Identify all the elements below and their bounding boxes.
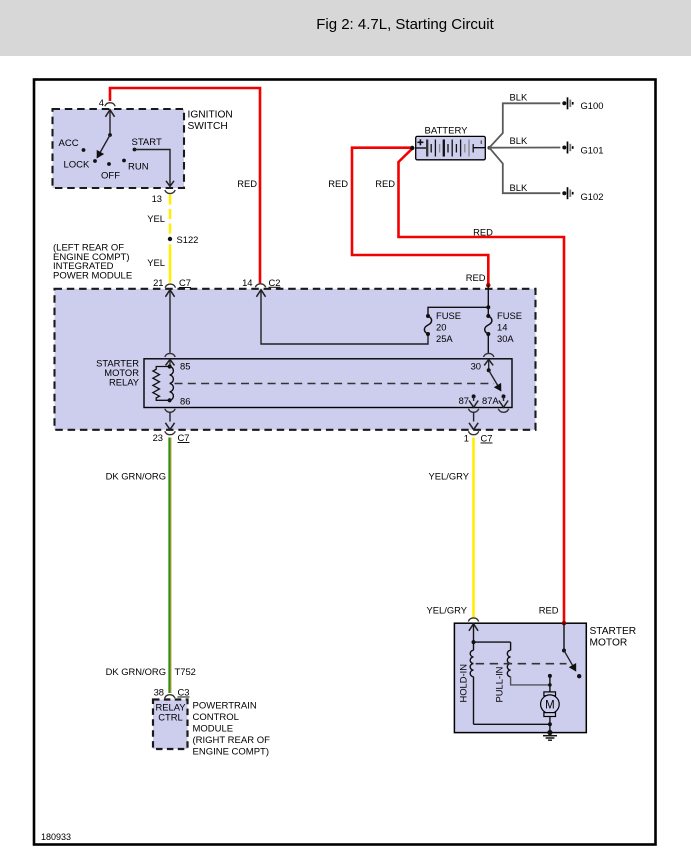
svg-text:RED: RED xyxy=(466,272,486,283)
relay coil winding xyxy=(170,367,174,401)
battery plus xyxy=(417,141,423,143)
wire 87 to pin 1 xyxy=(473,412,475,422)
starter switch line xyxy=(563,623,565,650)
switch pivot node xyxy=(108,133,112,137)
svg-text:RED: RED xyxy=(328,178,348,189)
svg-text:38: 38 xyxy=(154,687,164,698)
wire to fuse 20 top xyxy=(428,307,488,316)
splice S122 xyxy=(168,237,172,241)
svg-text:G100: G100 xyxy=(581,100,604,111)
wire RED ignition pin4 to C2 xyxy=(110,88,260,283)
ground symbol starter xyxy=(543,736,557,741)
svg-text:RED: RED xyxy=(539,605,559,616)
frame border xyxy=(34,80,656,845)
motor brush bottom xyxy=(544,713,556,717)
arc below relay at 87A xyxy=(498,409,508,413)
battery box xyxy=(416,136,486,159)
wire YEL dashed segment xyxy=(169,195,172,238)
connector 23 C7 xyxy=(165,431,175,435)
contact dot RUN xyxy=(122,159,126,163)
svg-text:M: M xyxy=(545,700,555,712)
svg-text:DK GRN/ORG: DK GRN/ORG xyxy=(106,471,166,482)
svg-text:YEL/GRY: YEL/GRY xyxy=(429,471,470,482)
svg-text:C7: C7 xyxy=(178,432,190,443)
battery cells xyxy=(427,140,473,157)
starter entry connector arc xyxy=(468,618,478,622)
svg-text:BLK: BLK xyxy=(510,135,528,146)
svg-text:25A: 25A xyxy=(436,333,453,344)
svg-text:C7: C7 xyxy=(179,277,191,288)
wire YEL solid segment xyxy=(169,245,172,283)
svg-text:STARTER: STARTER xyxy=(590,626,637,637)
svg-text:23: 23 xyxy=(153,432,163,443)
wire fuse 14 to relay 30 xyxy=(487,334,489,354)
PCM relay ctrl box xyxy=(153,700,188,750)
wire RED battery to starter motor xyxy=(399,148,565,622)
svg-text:PULL-IN: PULL-IN xyxy=(494,667,505,703)
pin 4 connector arc xyxy=(105,103,115,107)
wire START to pin 13 xyxy=(135,150,171,187)
starter motor relay box xyxy=(144,359,512,408)
svg-text:MOTOR: MOTOR xyxy=(590,638,628,649)
starter entry arrow xyxy=(469,624,478,631)
svg-text:HOLD-IN: HOLD-IN xyxy=(458,664,469,703)
wire RED battery to IPM fuse feed xyxy=(352,148,488,286)
svg-text:(RIGHT REAR OF: (RIGHT REAR OF xyxy=(193,735,271,746)
svg-text:BLK: BLK xyxy=(510,91,528,102)
relay pin 87 exit arrow xyxy=(473,396,475,401)
svg-text:T752: T752 xyxy=(175,666,196,677)
svg-text:CTRL: CTRL xyxy=(158,712,182,723)
svg-text:Fig 2: 4.7L, Starting Circuit: Fig 2: 4.7L, Starting Circuit xyxy=(316,16,494,33)
svg-text:21: 21 xyxy=(153,277,163,288)
svg-text:13: 13 xyxy=(152,193,162,204)
svg-text:20: 20 xyxy=(436,322,446,333)
IPM box xyxy=(55,289,536,430)
battery terminal lines xyxy=(416,147,427,149)
svg-text:DK GRN/ORG: DK GRN/ORG xyxy=(106,666,166,677)
fuse 14 xyxy=(486,314,490,318)
ground G101 xyxy=(562,142,603,156)
wire to pull-in xyxy=(474,641,511,643)
motor brush top xyxy=(544,692,556,696)
svg-text:YEL: YEL xyxy=(147,257,165,268)
starter switch lever xyxy=(564,651,576,671)
svg-text:FUSE: FUSE xyxy=(497,310,522,321)
pin 13 connector arc xyxy=(165,190,175,194)
svg-text:85: 85 xyxy=(180,361,190,372)
starter mechanical link dashed xyxy=(476,663,567,665)
svg-text:14: 14 xyxy=(242,277,252,288)
svg-text:4: 4 xyxy=(99,97,104,108)
pin 21 entry arrow + wire to relay xyxy=(165,290,174,297)
relay pin 87A exit arrow xyxy=(503,396,505,401)
starter motor box xyxy=(454,623,586,732)
junction node fuse feed xyxy=(486,305,490,309)
svg-text:87A: 87A xyxy=(482,395,499,406)
junction node coils xyxy=(472,640,476,644)
fuse 20 xyxy=(426,314,430,318)
svg-text:14: 14 xyxy=(497,322,507,333)
svg-text:RED: RED xyxy=(473,227,493,238)
svg-text:87: 87 xyxy=(459,395,469,406)
svg-text:C2: C2 xyxy=(269,277,281,288)
relay coil entry arrow xyxy=(166,359,175,365)
motor circle xyxy=(541,695,560,714)
ground G100 xyxy=(562,97,603,111)
svg-text:SWITCH: SWITCH xyxy=(188,121,228,132)
svg-text:BLK: BLK xyxy=(510,182,528,193)
relay switch lever xyxy=(489,370,501,390)
wire entry to junction xyxy=(473,624,475,642)
starter switch red feed node xyxy=(562,621,566,625)
red feed junction dot xyxy=(486,283,490,287)
svg-text:86: 86 xyxy=(180,396,190,407)
relay mechanical link dashed xyxy=(175,383,495,385)
svg-text:RED: RED xyxy=(237,178,257,189)
svg-text:S122: S122 xyxy=(177,234,199,245)
relay 30 entry arrow xyxy=(484,359,493,365)
arc below relay at 87 xyxy=(468,409,478,413)
svg-text:G101: G101 xyxy=(581,145,604,156)
svg-text:RUN: RUN xyxy=(128,162,149,173)
svg-text:OFF: OFF xyxy=(101,171,120,182)
wire motor to ground xyxy=(549,717,551,735)
relay pin 86 xyxy=(168,398,172,402)
battery negative terminal node xyxy=(487,146,491,150)
svg-text:RELAY: RELAY xyxy=(109,377,140,388)
svg-text:MODULE: MODULE xyxy=(193,724,234,735)
relay coil connector arc xyxy=(165,353,175,357)
svg-text:ENGINE COMPT): ENGINE COMPT) xyxy=(193,747,270,758)
wire DK GRN/ORG xyxy=(168,438,170,694)
svg-text:C7: C7 xyxy=(481,433,493,444)
ignition switch box xyxy=(53,109,185,188)
battery minus xyxy=(480,140,482,144)
svg-text:IGNITION: IGNITION xyxy=(188,110,233,121)
svg-text:CONTROL: CONTROL xyxy=(193,712,239,723)
svg-text:FUSE: FUSE xyxy=(436,310,461,321)
wire BLK to G100 xyxy=(489,103,560,147)
wire YEL/GRY xyxy=(472,438,475,619)
relay pin 85 xyxy=(168,364,172,368)
contact dot START xyxy=(133,148,137,152)
svg-text:30: 30 xyxy=(471,361,481,372)
switch common line xyxy=(109,110,111,135)
svg-text:1: 1 xyxy=(464,433,469,444)
svg-text:YEL/GRY: YEL/GRY xyxy=(427,605,468,616)
arc below relay at 86 xyxy=(165,409,175,413)
switch lever to LOCK xyxy=(97,135,110,158)
svg-text:LOCK: LOCK xyxy=(64,160,91,171)
pin 4 arrow xyxy=(105,110,114,117)
wire BLK to G101 xyxy=(489,147,560,149)
svg-text:START: START xyxy=(132,137,162,148)
battery positive terminal node xyxy=(410,146,414,150)
svg-text:POWER MODULE: POWER MODULE xyxy=(53,270,132,281)
contact dot ACC xyxy=(82,148,86,152)
hold-in coil xyxy=(473,642,475,650)
relay 30 connector arc xyxy=(484,353,494,357)
connector 1 C7 xyxy=(468,431,478,435)
pull-in coil xyxy=(510,642,512,650)
wire BLK to G102 xyxy=(489,148,560,194)
relay coil resistor branch xyxy=(153,367,170,401)
svg-text:C3: C3 xyxy=(178,687,190,698)
svg-text:YEL: YEL xyxy=(147,213,165,224)
svg-text:BATTERY: BATTERY xyxy=(425,126,469,137)
starter switch contact xyxy=(548,674,552,678)
svg-text:ACC: ACC xyxy=(59,138,79,149)
pin 14 entry arrow + wire to fuse 20 xyxy=(256,290,265,297)
title bar xyxy=(0,0,691,56)
contact dot OFF xyxy=(107,162,111,166)
wire red feed inside IPM xyxy=(487,285,489,316)
svg-text:RED: RED xyxy=(375,178,395,189)
svg-text:G102: G102 xyxy=(581,191,604,202)
svg-text:180933: 180933 xyxy=(41,832,71,842)
ground G102 xyxy=(562,187,603,202)
relay pin 87 xyxy=(472,394,476,398)
svg-text:30A: 30A xyxy=(497,333,514,344)
contact dot LOCK xyxy=(93,159,97,163)
wire 86 to pin 23 xyxy=(169,412,171,422)
svg-text:POWERTRAIN: POWERTRAIN xyxy=(193,701,257,712)
relay pin 87A node xyxy=(502,394,506,398)
